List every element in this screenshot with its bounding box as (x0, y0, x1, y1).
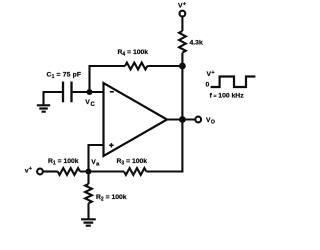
node output junction (179, 116, 186, 123)
ground bottom (81, 219, 96, 225)
wire 4.3k to node (181, 53, 183, 66)
waveform square wave (211, 77, 256, 88)
wire top rail right segment (147, 65, 182, 67)
wire V+ to 4.3k (181, 17, 183, 32)
terminal V+ left (37, 169, 43, 175)
resistor R2 (85, 184, 92, 203)
wire Va down to R2 (87, 172, 89, 185)
plus sign (109, 143, 113, 147)
wire right vertical to output node and down (146, 66, 182, 172)
terminal V+ top (180, 11, 186, 17)
wire output (167, 118, 195, 120)
svg-text:0: 0 (206, 82, 210, 89)
wire C1 to inverting input (73, 91, 104, 93)
op-amp U1 (104, 83, 168, 156)
wire R2 to ground (87, 203, 89, 219)
wire bottom rail Va to R3 (80, 170, 124, 172)
node top rail junction (179, 63, 186, 70)
node Va junction (86, 169, 92, 175)
resistor R4 (125, 63, 147, 70)
resistor R3 (124, 168, 146, 175)
capacitor C1 (63, 82, 72, 103)
terminal Vo (195, 117, 201, 123)
ground left (37, 105, 50, 111)
svg-text:4.3k: 4.3k (190, 40, 203, 47)
resistor R1 (58, 168, 80, 175)
wire ground to C1 (44, 92, 63, 105)
minus sign (110, 91, 114, 93)
resistor 4.3k (179, 31, 186, 53)
wire V+ terminal to R1 (43, 170, 58, 172)
wire top feedback rail left segment (90, 66, 126, 92)
wire noninverting input (89, 145, 104, 172)
svg-text:f ≈ 100 kHz: f ≈ 100 kHz (210, 93, 245, 100)
node Vc junction (87, 89, 93, 95)
